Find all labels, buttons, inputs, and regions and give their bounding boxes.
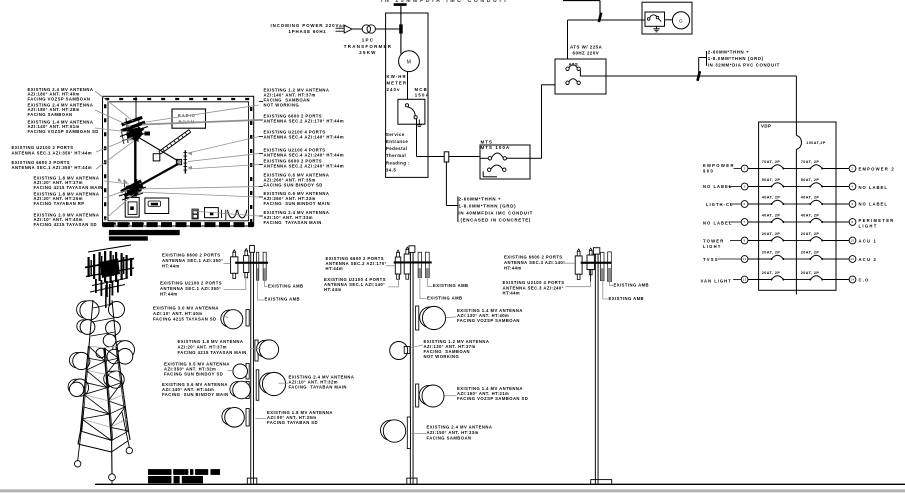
svg-text:FACING SAMBOAN: FACING SAMBOAN [427, 436, 472, 441]
svg-text:10: 10 [850, 239, 854, 243]
svg-text:FACING 4215 TAYASAN MAIN: FACING 4215 TAYASAN MAIN [178, 350, 247, 355]
svg-text:ATS W/ 225A: ATS W/ 225A [570, 45, 603, 50]
svg-text:FACING SUN BINDOY SD: FACING SUN BINDOY SD [264, 183, 323, 188]
svg-text:ANTENNA SEC.1 AZI:350° HT:44m: ANTENNA SEC.1 AZI:350° HT:44m [12, 165, 93, 170]
svg-text:HT:44m: HT:44m [503, 291, 521, 296]
svg-text:Reading :: Reading : [386, 161, 410, 166]
svg-text:FACING VOZSP SAMBOAN SD: FACING VOZSP SAMBOAN SD [457, 396, 528, 401]
svg-text:AZI:150° ANT. HT:33m: AZI:150° ANT. HT:33m [427, 430, 479, 435]
svg-text:AZI:10° ANT. HT:40m: AZI:10° ANT. HT:40m [153, 311, 202, 316]
svg-text:PERIMETER: PERIMETER [859, 218, 895, 223]
svg-text:EXISTING AMB: EXISTING AMB [427, 296, 463, 301]
svg-text:13: 13 [742, 278, 746, 282]
svg-text:1: 1 [744, 167, 746, 171]
svg-text:25KW: 25KW [359, 50, 376, 55]
svg-text:TVSS: TVSS [703, 257, 719, 262]
svg-text:20AT, 2P: 20AT, 2P [762, 232, 781, 236]
svg-text:LIGHT: LIGHT [703, 244, 722, 249]
svg-text:1PC: 1PC [362, 38, 374, 43]
svg-text:EXISTING AMB: EXISTING AMB [265, 297, 301, 302]
svg-text:NOT WORKING: NOT WORKING [424, 354, 460, 359]
svg-text:ANTENNA SEC.3 AZI:240°: ANTENNA SEC.3 AZI:240° [503, 285, 564, 290]
svg-text:Service: Service [386, 132, 405, 137]
svg-text:HT:44m: HT:44m [504, 266, 522, 271]
svg-text:EXISTING 3.0 MV ANTENNA: EXISTING 3.0 MV ANTENNA [153, 306, 219, 311]
svg-text:C.O: C.O [859, 278, 870, 283]
svg-text:2: 2 [851, 167, 853, 171]
svg-text:1PHASE 60Hz: 1PHASE 60Hz [289, 29, 327, 34]
svg-text:NO LABEL: NO LABEL [703, 221, 732, 226]
svg-text:20AT, 2P: 20AT, 2P [801, 251, 820, 255]
svg-text:FACING 4215 TAYASAN SD: FACING 4215 TAYASAN SD [153, 316, 217, 321]
svg-text:HT:44m: HT:44m [162, 264, 180, 269]
svg-text:NO LABEL: NO LABEL [859, 185, 888, 190]
svg-text:8: 8 [851, 220, 853, 224]
svg-text:NOT WORKING: NOT WORKING [264, 103, 300, 108]
svg-text:NO LABEL: NO LABEL [703, 184, 732, 189]
svg-text:MCB: MCB [415, 87, 428, 92]
svg-text:FACING VOZSP SAMBOAN: FACING VOZSP SAMBOAN [28, 96, 91, 101]
svg-text:Thermal: Thermal [386, 153, 406, 158]
svg-text:FACING 4215 TAYASAN SD: FACING 4215 TAYASAN SD [34, 222, 98, 227]
svg-text:EXISTING 6600 2 PORTS: EXISTING 6600 2 PORTS [504, 255, 563, 260]
svg-text:240v: 240v [387, 87, 401, 92]
svg-text:4: 4 [851, 185, 853, 189]
svg-text:ACU 1: ACU 1 [859, 239, 878, 244]
svg-text:ACU 2: ACU 2 [859, 257, 878, 262]
svg-text:70AT, 2P: 70AT, 2P [801, 160, 820, 164]
svg-text:G: G [679, 18, 683, 23]
svg-text:MTS: MTS [481, 140, 494, 145]
svg-text:FACING TAYABAN SD: FACING TAYABAN SD [267, 420, 318, 425]
svg-text:IN 40MMFDIA IMC CONDUIT: IN 40MMFDIA IMC CONDUIT [459, 211, 533, 216]
svg-text:EXISTING 6600 2 PORTS: EXISTING 6600 2 PORTS [12, 160, 71, 165]
svg-text:7: 7 [744, 220, 746, 224]
svg-text:M: M [407, 59, 412, 65]
svg-text:1-8.0MM*THHN (GRD): 1-8.0MM*THHN (GRD) [459, 204, 517, 209]
svg-text:FACING SUN BINDOY SD: FACING SUN BINDOY SD [164, 372, 223, 377]
svg-text:FACING SAMBOAN: FACING SAMBOAN [28, 112, 73, 117]
svg-text:FACING SUN BINDOY MAIN: FACING SUN BINDOY MAIN [162, 392, 229, 397]
svg-text:2-60MM*THHN +: 2-60MM*THHN + [708, 50, 750, 55]
svg-text:150A: 150A [415, 92, 430, 97]
svg-text:100AT,2P: 100AT,2P [806, 141, 826, 145]
svg-text:EXISTING U2100 2 PORTS: EXISTING U2100 2 PORTS [160, 281, 222, 286]
svg-text:FACING VOZSP SAMBOAN SD: FACING VOZSP SAMBOAN SD [28, 129, 99, 134]
svg-text:VDP: VDP [761, 124, 771, 129]
svg-text:ANTENNA SEC.4 AZI:240° HT:44m: ANTENNA SEC.4 AZI:240° HT:44m [264, 153, 345, 158]
svg-text:40AT, 2P: 40AT, 2P [801, 196, 820, 200]
svg-text:900: 900 [703, 169, 714, 174]
svg-text:FACING 4215 TAYASAN MAIN: FACING 4215 TAYASAN MAIN [34, 185, 103, 190]
svg-text:12: 12 [850, 257, 854, 261]
svg-text:50AT, 2P: 50AT, 2P [801, 178, 820, 182]
svg-text:INCOMING POWER 220Vac: INCOMING POWER 220Vac [271, 23, 346, 28]
svg-text:34.5: 34.5 [386, 168, 396, 173]
svg-text:FACING VOZSP SAMBOAN: FACING VOZSP SAMBOAN [457, 318, 520, 323]
svg-text:LIGTH-CL: LIGTH-CL [706, 202, 734, 207]
svg-text:FACING TAYABAN RP: FACING TAYABAN RP [34, 201, 85, 206]
svg-text:FACING SUN BINDOY MAIN: FACING SUN BINDOY MAIN [264, 201, 331, 206]
svg-text:EXISTING 2.4 MV ANTENNA: EXISTING 2.4 MV ANTENNA [427, 425, 493, 430]
svg-text:HT:44m: HT:44m [324, 287, 342, 292]
svg-text:EMPOWER 2: EMPOWER 2 [859, 167, 895, 172]
svg-text:14: 14 [850, 278, 854, 282]
svg-text:40AT, 2P: 40AT, 2P [801, 214, 820, 218]
svg-text:TOWER: TOWER [703, 239, 725, 244]
svg-text:EMPOWER: EMPOWER [703, 163, 735, 168]
svg-text:6: 6 [851, 202, 853, 206]
svg-text:LIGHT: LIGHT [859, 224, 878, 229]
svg-text:MTS 100A: MTS 100A [481, 145, 511, 150]
svg-text:Entrance: Entrance [386, 139, 408, 144]
svg-text:EXISTING AMB: EXISTING AMB [433, 283, 469, 288]
svg-text:FACING TAYABAN MAIN: FACING TAYABAN MAIN [289, 385, 347, 390]
svg-text:METER: METER [387, 81, 408, 86]
svg-text:AZI:20° ANT. HT:37m: AZI:20° ANT. HT:37m [178, 344, 227, 349]
svg-text:ANTENNA SEC.1 AZI:350° HT:44m: ANTENNA SEC.1 AZI:350° HT:44m [12, 151, 93, 156]
svg-text:2-60MM*THHN +: 2-60MM*THHN + [459, 197, 502, 202]
svg-text:ANTENNA SEC.4 AZI:140° HT:44m: ANTENNA SEC.4 AZI:140° HT:44m [264, 135, 345, 140]
svg-text:20AT, 2P: 20AT, 2P [801, 232, 820, 236]
svg-text:1-8.0MM*THHN (GRD): 1-8.0MM*THHN (GRD) [708, 56, 764, 61]
svg-text:HT:44m: HT:44m [160, 292, 178, 297]
svg-text:20AT, 2P: 20AT, 2P [762, 251, 781, 255]
svg-text:EXISTING AMB: EXISTING AMB [268, 283, 304, 288]
svg-text:NO LABEL: NO LABEL [859, 202, 888, 207]
svg-text:70AT, 2P: 70AT, 2P [762, 160, 781, 164]
svg-text:20AT, 2P: 20AT, 2P [762, 271, 781, 275]
svg-text:EXISTING 6600 2 PORTS: EXISTING 6600 2 PORTS [162, 253, 221, 258]
svg-text:EXISTING U2100 4 PORTS: EXISTING U2100 4 PORTS [503, 280, 565, 285]
svg-text:VAN LIGHT: VAN LIGHT [701, 279, 732, 284]
svg-text:50AT, 2P: 50AT, 2P [762, 178, 781, 182]
svg-text:FACING TAYASAN MAIN: FACING TAYASAN MAIN [264, 220, 322, 225]
svg-text:20AT, 2P: 20AT, 2P [801, 271, 820, 275]
svg-text:ANTENNA SEC.2 AZI:170° HT:44m: ANTENNA SEC.2 AZI:170° HT:44m [264, 119, 345, 124]
svg-text:Pedestal: Pedestal [386, 146, 408, 151]
svg-text:IN 32MM*DIA PVC CONDUIT: IN 32MM*DIA PVC CONDUIT [708, 63, 780, 68]
svg-text:KW-HR: KW-HR [387, 74, 407, 79]
svg-text:ANTENNA SEC.3 AZI:140°: ANTENNA SEC.3 AZI:140° [504, 260, 565, 265]
svg-text:ANTENNA SEC.2 AZI:240° HT:44m: ANTENNA SEC.2 AZI:240° HT:44m [264, 164, 345, 169]
svg-text:40AT, 2P: 40AT, 2P [762, 196, 781, 200]
svg-text:5: 5 [744, 202, 746, 206]
svg-text:ANTENNA SEC.1 AZI:350°: ANTENNA SEC.1 AZI:350° [160, 286, 221, 291]
svg-text:EXISTING AMB: EXISTING AMB [609, 296, 645, 301]
svg-text:HT:44m: HT:44m [326, 266, 344, 271]
svg-text:40AT, 2P: 40AT, 2P [762, 214, 781, 218]
svg-text:9: 9 [744, 239, 746, 243]
svg-text:11: 11 [743, 257, 747, 261]
svg-text:EXISTING U2100 2 PORTS: EXISTING U2100 2 PORTS [12, 145, 74, 150]
svg-text:60HZ 220V: 60HZ 220V [573, 51, 600, 56]
svg-text:EXISTING 1.8 MV ANTENNA: EXISTING 1.8 MV ANTENNA [178, 339, 244, 344]
svg-text:(ENCASED IN CONCRETE): (ENCASED IN CONCRETE) [461, 218, 532, 223]
svg-text:EXISTING AMB: EXISTING AMB [614, 282, 650, 287]
svg-text:ANTENNA SEC.1 AZI:350°: ANTENNA SEC.1 AZI:350° [162, 258, 223, 263]
svg-text:3: 3 [744, 185, 746, 189]
svg-text:TRANSFORMER: TRANSFORMER [344, 44, 392, 49]
